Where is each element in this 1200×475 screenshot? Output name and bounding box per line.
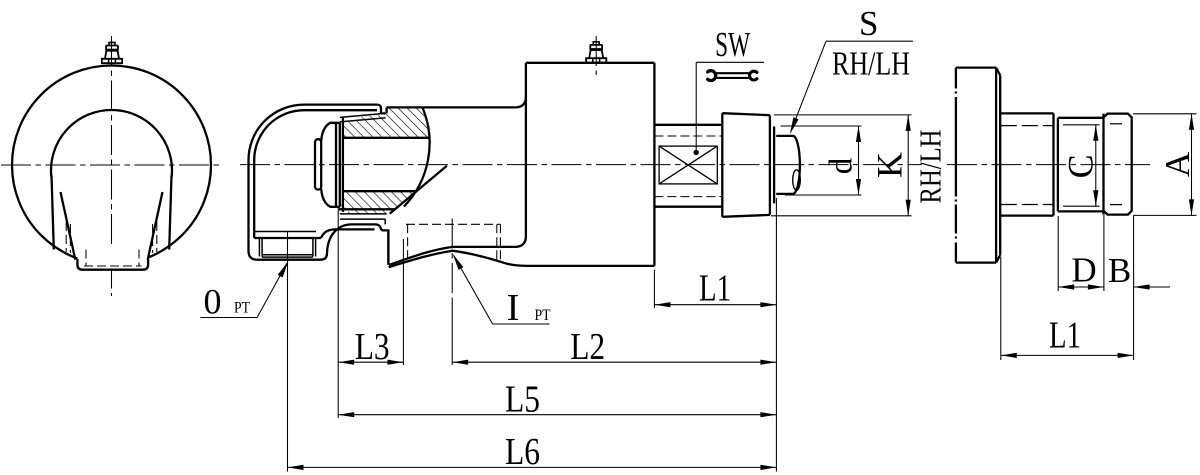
hex nut upper facet arc — [321, 123, 340, 141]
A extension bottom — [1133, 214, 1197, 216]
gland right wall — [387, 230, 389, 264]
hatch region bottom gland — [339, 192, 417, 209]
left view outer circular body — [12, 66, 211, 265]
extension line x776 common — [775, 198, 777, 472]
I leader arrowhead — [453, 254, 464, 270]
gland bottom lip line b — [340, 218, 385, 220]
left view mask for bottom tube — [78, 245, 149, 270]
flange chamfer edge — [999, 75, 1001, 255]
svg-text:B: B — [1108, 251, 1131, 290]
gland step edge — [385, 107, 387, 113]
grease fitting on left view housing — [102, 42, 122, 63]
d arrow up — [856, 126, 861, 142]
d top extension — [781, 125, 862, 127]
L1 right extension left — [1000, 257, 1002, 360]
extension line x452 — [451, 300, 453, 365]
svg-text:L6: L6 — [505, 431, 540, 473]
taper end inner edge — [773, 127, 775, 204]
svg-text:L1: L1 — [699, 268, 731, 310]
svg-text:L3: L3 — [355, 326, 390, 368]
dimension L1 line — [654, 304, 776, 306]
D arrow left — [1058, 284, 1074, 289]
left view bottom tube outline — [77, 259, 148, 270]
thread runout ellipse — [793, 170, 801, 190]
hatch ticks top lip band — [356, 115, 385, 121]
thread end arc — [793, 136, 800, 194]
L3 arrow left — [338, 360, 354, 365]
shaft section1 bottom — [654, 206, 722, 208]
saddle upper curve and flat — [389, 236, 526, 265]
D arrow right — [1088, 284, 1104, 289]
L6 arrow left — [288, 465, 304, 470]
K bottom extension — [771, 215, 912, 217]
shaft hidden bore top — [654, 135, 722, 137]
extension line x338 — [337, 208, 339, 418]
S leader diagonal — [791, 41, 826, 130]
d dimension line — [858, 126, 860, 195]
svg-text:K: K — [870, 152, 910, 178]
hub thread hidden bottom — [1001, 204, 1054, 206]
svg-text:0: 0 — [204, 282, 222, 322]
S leader arrowhead — [790, 117, 799, 134]
left view funnel left inner wall — [61, 192, 76, 260]
elbow port shoulder — [254, 237, 321, 239]
svg-text:SW: SW — [715, 25, 750, 64]
body fitting centerline — [595, 36, 597, 75]
dimension L3 line — [338, 361, 403, 363]
port I centerline — [451, 219, 453, 301]
svg-text:RH/LH: RH/LH — [913, 130, 948, 204]
L5 arrow left — [338, 412, 354, 417]
hex symbol diagonal a — [659, 146, 717, 184]
hub thread hidden top — [1001, 125, 1054, 127]
flange left edge lower — [955, 243, 957, 263]
A extension top — [1133, 113, 1197, 115]
wrench icon — [708, 71, 716, 81]
elbow inner wall — [254, 110, 377, 238]
hidden port dashed right a — [496, 224, 498, 261]
left view horizontal centerline — [1, 164, 222, 166]
bore bottom line — [343, 190, 417, 192]
svg-text:L5: L5 — [505, 379, 540, 421]
ring hidden line top — [1110, 123, 1127, 125]
O label underline — [200, 317, 257, 319]
SW leader vertical — [695, 62, 697, 152]
flange left edge mid lower — [955, 205, 957, 234]
B arrow — [1134, 284, 1150, 289]
K top extension — [774, 114, 912, 116]
dimension L2 line — [452, 361, 776, 363]
gland bottom lip line a — [340, 213, 387, 215]
hex symbol box — [659, 146, 717, 184]
left view tube hidden bottom line — [84, 265, 142, 267]
gland bottom lip end — [384, 219, 386, 224]
d arrow down — [856, 179, 861, 195]
flange bottom edge — [956, 261, 996, 263]
taper section top — [722, 113, 770, 115]
hub right face — [1052, 113, 1054, 215]
flange right edge — [995, 68, 997, 263]
C dimension line — [1095, 125, 1097, 206]
L1 arrow left — [654, 302, 670, 307]
K arrow down — [906, 200, 911, 216]
middle view horizontal centerline — [240, 164, 922, 166]
elbow port thread wall left a — [258, 239, 260, 257]
svg-text:PT: PT — [234, 300, 250, 317]
K dimension line — [907, 115, 909, 216]
shaft section1 top — [654, 124, 722, 126]
left view hidden line tube left — [85, 250, 87, 267]
C extension bottom — [1063, 205, 1100, 207]
elbow outer profile — [249, 105, 389, 265]
L5 arrow right — [760, 412, 776, 417]
L1r arrow left — [1001, 353, 1017, 358]
mid section bottom edge — [1058, 210, 1104, 212]
bore top line — [343, 137, 429, 139]
hatch ticks bottom lip band — [348, 210, 394, 214]
D extension left — [1057, 216, 1059, 291]
flange top edge — [956, 66, 996, 68]
C extension top — [1063, 124, 1100, 126]
flange left edge upper — [955, 68, 957, 89]
left view keyhole left tangent wall — [52, 176, 54, 250]
L3 arrow right — [387, 360, 403, 365]
left view hidden line left a — [65, 222, 67, 252]
hex nut facet boundary — [335, 123, 337, 206]
D dimension line — [1058, 286, 1104, 288]
C arrow up — [1093, 125, 1098, 141]
left view hidden line tube right — [138, 250, 140, 267]
L1r arrow right — [1118, 353, 1134, 358]
elbow port inner bottom — [255, 231, 316, 233]
K arrow up — [906, 115, 911, 131]
left view inner keyhole arc — [51, 110, 172, 177]
O leader diagonal — [257, 263, 287, 318]
C arrow down — [1093, 190, 1098, 206]
svg-text:L1: L1 — [1049, 315, 1081, 357]
L1 arrow right — [760, 302, 776, 307]
body right edge — [653, 63, 655, 266]
L2 arrow left — [452, 360, 468, 365]
svg-text:L2: L2 — [570, 326, 605, 368]
hub bottom edge — [1000, 214, 1053, 216]
gland top lip upper line — [340, 113, 386, 117]
elbow inner S-curve to port — [321, 229, 375, 238]
A dimension line — [1191, 114, 1193, 216]
O leader arrowhead — [278, 261, 289, 277]
sphere arc (ball joint silhouette) — [404, 107, 430, 206]
taper section face — [721, 113, 723, 217]
left view hidden line right b — [152, 224, 154, 253]
cone diagonal — [390, 166, 447, 214]
svg-text:S: S — [859, 4, 878, 43]
svg-text:C: C — [1061, 154, 1101, 178]
dimension L6 line — [288, 466, 777, 468]
extension line x654 L1 — [653, 270, 655, 308]
left view funnel right inner wall — [148, 192, 163, 260]
hex nut lower facet arc — [321, 189, 340, 207]
thread bottom — [776, 193, 793, 195]
dimension L1 right line — [1001, 354, 1134, 356]
svg-text:PT: PT — [535, 307, 551, 324]
B dimension leader — [1134, 286, 1170, 288]
flange left edge dot a — [955, 92, 957, 94]
I label underline — [493, 323, 550, 325]
left view vertical centerline — [111, 36, 113, 296]
flange chamfer bottom — [996, 255, 1000, 263]
left view hidden line left b — [69, 224, 71, 253]
shaft hidden bore bottom — [654, 196, 722, 198]
taper section bottom — [722, 215, 770, 217]
S leader underline — [826, 40, 913, 42]
I leader diagonal — [454, 256, 493, 324]
D extension right — [1103, 215, 1105, 291]
SW leader underline — [696, 61, 764, 63]
extension line O port — [287, 232, 289, 472]
right view centerline — [947, 164, 1150, 166]
sleeve end lip — [377, 105, 385, 114]
taper end outer edge — [769, 115, 771, 215]
mid section left face — [1057, 118, 1059, 212]
hatch region top gland — [343, 108, 429, 138]
svg-text:I: I — [507, 287, 520, 329]
elbow port opening line a — [262, 254, 313, 256]
left view hidden line right a — [156, 222, 158, 252]
flange left edge dot b — [955, 237, 957, 239]
gland bottom outline — [339, 208, 395, 210]
d bottom extension — [785, 194, 862, 196]
mid section top edge — [1058, 117, 1104, 119]
ring hidden line bottom — [1110, 204, 1127, 206]
L6 arrow right — [760, 465, 776, 470]
B extension right — [1133, 216, 1135, 360]
flange left edge mid upper — [955, 97, 957, 197]
elbow port opening line b — [262, 256, 313, 258]
svg-text:D: D — [1071, 251, 1096, 290]
svg-text:RH/LH: RH/LH — [832, 46, 910, 83]
flange chamfer top — [996, 68, 1000, 76]
svg-text:A: A — [1158, 151, 1197, 177]
flange left edge dot c — [955, 200, 957, 202]
saddle lower curve and body bottom — [389, 251, 655, 268]
hidden port dashed left — [407, 224, 409, 263]
nut washer face — [342, 118, 344, 212]
L2 arrow right — [760, 360, 776, 365]
body left edge — [525, 63, 527, 236]
dimension L5 line — [338, 414, 776, 416]
hex symbol diagonal b — [659, 146, 717, 184]
ring outline — [1104, 114, 1132, 215]
elbow port thread wall left b — [261, 239, 263, 257]
SW leader dot — [694, 150, 699, 155]
gland top lip lower line — [340, 118, 386, 122]
thread top — [776, 135, 793, 137]
left view keyhole right tangent wall — [169, 176, 171, 250]
A arrow up — [1189, 114, 1194, 130]
hex nut left cap — [315, 139, 321, 189]
hub top edge — [1000, 112, 1053, 114]
A arrow down — [1189, 199, 1194, 215]
body top edge — [526, 62, 655, 64]
elbow port thread wall right b — [315, 239, 317, 257]
hex nut right face — [339, 123, 341, 207]
extension line x403 — [402, 239, 404, 365]
svg-text:d: d — [824, 157, 860, 174]
hidden port dashed top — [406, 223, 500, 225]
body top line to fillet — [387, 97, 526, 108]
hidden port dashed right b — [499, 224, 501, 260]
grease fitting on body — [586, 42, 606, 63]
elbow port thread wall right a — [312, 239, 314, 257]
